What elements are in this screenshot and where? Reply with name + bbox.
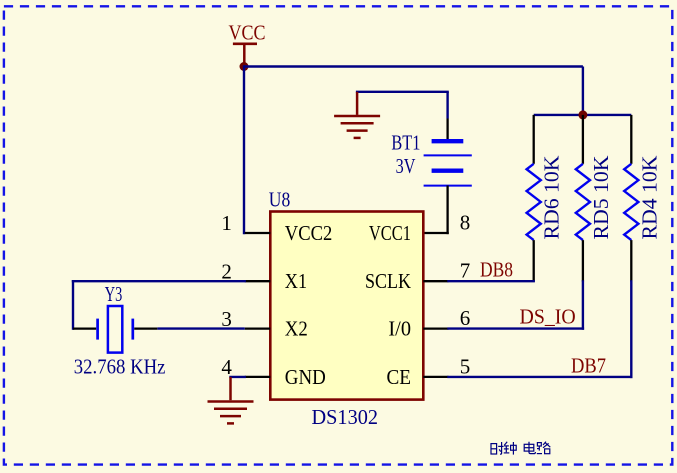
svg-text:SCLK: SCLK (365, 269, 411, 293)
battery BT1 (423, 119, 472, 234)
pin 7 stub (423, 280, 448, 282)
pin 5 stub (423, 376, 448, 378)
svg-text:X1: X1 (285, 269, 307, 293)
IC U8 DS1302 body (270, 212, 423, 400)
resistor RD5 10K (576, 115, 590, 282)
ground (battery) (334, 92, 380, 138)
wire SCLK to RD6 (net DB8) (449, 280, 534, 282)
svg-text:VCC1: VCC1 (369, 221, 411, 245)
wire VCC node to resistor column (top horizontal) (244, 65, 583, 67)
svg-text:RD4 10K: RD4 10K (637, 156, 661, 240)
svg-text:DS_IO: DS_IO (520, 305, 576, 329)
svg-text:8: 8 (460, 210, 471, 234)
svg-text:3: 3 (221, 307, 232, 331)
wire battery top to ground (357, 92, 448, 119)
wire CE to RD4 (net DB7) (449, 282, 632, 377)
power port VCC (229, 20, 266, 66)
svg-text:RD5 10K: RD5 10K (589, 156, 613, 240)
resistor RD6 10K (527, 115, 541, 282)
wire I/0 to RD5 (net DS_IO) (449, 282, 583, 329)
svg-text:VCC2: VCC2 (285, 221, 333, 245)
wire pin 4 to ground (231, 376, 245, 378)
svg-text:2: 2 (221, 259, 232, 283)
svg-text:DB8: DB8 (480, 258, 513, 282)
wire resistor top rail (534, 114, 632, 116)
svg-text:VCC: VCC (229, 20, 266, 44)
wire crystal to X2 (157, 327, 244, 329)
svg-text:5: 5 (460, 354, 471, 378)
svg-text:7: 7 (460, 259, 471, 283)
svg-text:3V: 3V (396, 154, 416, 178)
pin 4 stub (245, 376, 271, 378)
crystal Y3 (73, 306, 157, 353)
wire X1 to crystal (horizontal) (73, 280, 245, 282)
pin 3 stub (245, 327, 271, 329)
svg-text:32.768 KHz: 32.768 KHz (74, 355, 166, 379)
svg-text:X2: X2 (285, 317, 308, 341)
pin 1 stub (245, 232, 271, 234)
ground (pin 4) (208, 377, 254, 424)
wire down from top horizontal to resistor rail (582, 67, 584, 115)
svg-text:DB7: DB7 (571, 354, 606, 378)
wire VCC node down to pin 1 (243, 67, 245, 234)
svg-text:Y3: Y3 (105, 282, 123, 306)
svg-text:CE: CE (387, 365, 412, 389)
resistor RD4 10K (624, 115, 638, 282)
svg-text:I/0: I/0 (388, 317, 411, 341)
svg-text:DS1302: DS1302 (312, 405, 379, 429)
svg-text:BT1: BT1 (391, 131, 420, 155)
pin 6 stub (423, 327, 448, 329)
title text 时钟电路 (491, 442, 550, 455)
svg-text:U8: U8 (269, 187, 291, 211)
junction on resistor rail (578, 110, 587, 119)
svg-text:GND: GND (285, 365, 326, 389)
pin 2 stub (245, 280, 271, 282)
svg-text:RD6 10K: RD6 10K (540, 156, 564, 240)
svg-text:6: 6 (460, 306, 471, 330)
svg-text:1: 1 (221, 211, 232, 235)
svg-text:4: 4 (221, 355, 232, 379)
junction at VCC node (240, 62, 249, 71)
wire crystal left vertical (72, 281, 74, 328)
